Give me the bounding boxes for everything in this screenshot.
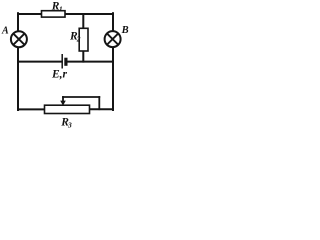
wiper arrow shaft [62, 97, 64, 102]
battery E,r long plate [61, 54, 63, 69]
rheostat R3 box [45, 105, 90, 113]
wire bottom-right segment [90, 108, 114, 110]
svg-text:E,r: E,r [51, 69, 68, 81]
rheostat wiper jumper wire [63, 97, 99, 109]
wire right vertical [112, 13, 114, 110]
wire R2 top lead [82, 14, 84, 29]
wire middle horizontal left of battery [18, 61, 62, 63]
wire middle horizontal right of battery [66, 61, 113, 63]
svg-text:A: A [1, 25, 9, 36]
lamp A [11, 31, 27, 47]
svg-text:3: 3 [67, 120, 72, 128]
wiper arrowhead [60, 101, 66, 106]
wire left vertical [17, 13, 19, 110]
svg-text:B: B [121, 25, 129, 36]
wire bottom-left segment [18, 108, 45, 110]
svg-text:1: 1 [59, 4, 63, 13]
lamp B [105, 31, 121, 47]
wire top-left segment [18, 13, 42, 15]
wire top-right segment [65, 13, 113, 15]
battery E,r short thick plate [64, 58, 67, 66]
wire R2 bottom lead [82, 51, 84, 62]
svg-text:2: 2 [76, 35, 81, 44]
resistor R2 [79, 28, 88, 51]
resistor R1 [42, 11, 66, 17]
